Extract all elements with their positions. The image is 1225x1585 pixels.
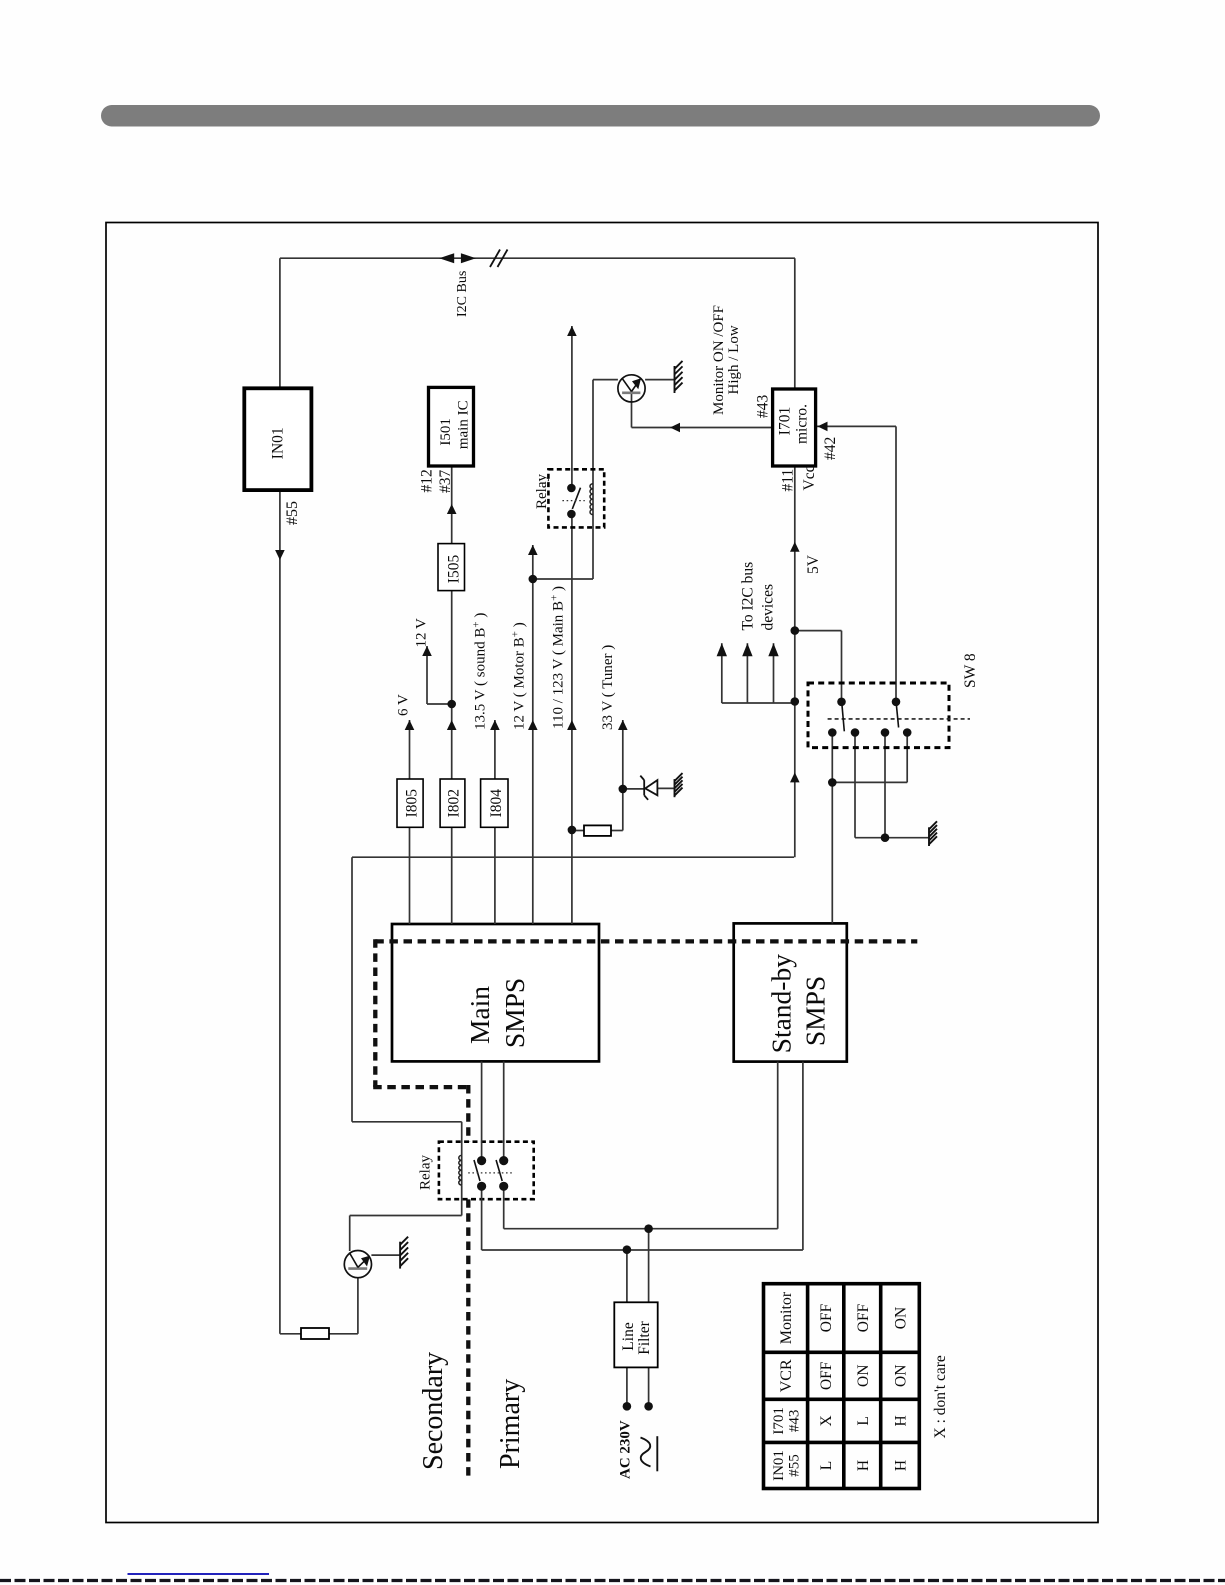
arrow: motor B+ out — [528, 720, 538, 730]
arrow: #43 direction — [670, 423, 680, 433]
svg-text:I501: I501 — [438, 418, 454, 446]
svg-text:#43: #43 — [787, 1410, 803, 1433]
svg-text:H: H — [893, 1415, 910, 1426]
wire: Q2 collector lead — [349, 1216, 351, 1252]
arrow: main B+ top — [528, 545, 538, 555]
svg-text:I804: I804 — [488, 789, 505, 818]
svg-text:#43: #43 — [755, 395, 772, 419]
wire: I802 to Main SMPS — [451, 827, 453, 924]
svg-text:OFF: OFF — [818, 1361, 835, 1390]
svg-text:I802: I802 — [446, 789, 463, 817]
wire: line filter leads — [626, 1250, 628, 1303]
ground (Q1 emitter) — [675, 361, 683, 393]
svg-text:micro.: micro. — [794, 404, 811, 444]
block IN01 — [244, 388, 311, 490]
arrow: 33V out — [618, 720, 628, 730]
svg-text:#37: #37 — [437, 470, 454, 494]
svg-text:Secondary: Secondary — [418, 1352, 449, 1470]
svg-text:Monitor ON /OFF: Monitor ON /OFF — [711, 305, 727, 415]
diagram frame — [106, 223, 1098, 1523]
wire: 33V dropper — [572, 830, 584, 832]
AC source symbol — [641, 1438, 651, 1467]
svg-text:SMPS: SMPS — [800, 976, 831, 1046]
svg-text:5V: 5V — [805, 554, 822, 574]
wire: 110/123V Main B+ line (below relay) — [571, 514, 573, 924]
wire: 5V Vcc line — [794, 466, 796, 857]
svg-text:SW 8: SW 8 — [962, 653, 979, 688]
node: AC neutral — [644, 1224, 653, 1233]
wire: Main SMPS to relay contacts — [481, 1061, 483, 1160]
wire: Main B+ line above relay — [571, 326, 573, 488]
svg-text:#12: #12 — [419, 469, 436, 492]
wire: 12V Motor B+ line — [532, 545, 534, 924]
zener diode D1 (33V clamp) — [640, 776, 657, 800]
wire: Q1 base lead — [631, 392, 633, 428]
wire: relay RL2 coil bottom — [461, 1185, 463, 1215]
node: 5V to I2C devices — [791, 697, 800, 706]
ground (zener) — [675, 773, 683, 797]
relay RL1 coil — [590, 484, 593, 515]
svg-text:#55: #55 — [787, 1454, 803, 1477]
SW8 pole 2 — [892, 698, 901, 707]
I2C bus double arrow — [439, 253, 454, 263]
wire: I805 to Main SMPS — [409, 827, 411, 924]
svg-text:Vcc: Vcc — [801, 465, 818, 490]
truth table — [764, 1284, 920, 1489]
wire: Q1 left lead — [593, 379, 618, 381]
wire: resistor to Q2 base — [329, 1333, 358, 1335]
relay RL2 contact a2 — [499, 1156, 508, 1165]
relay RL2 coil feed line — [461, 1155, 463, 1185]
wire: bus drop to IN01 — [279, 258, 281, 388]
wire: #42 from I701 to SW8 — [816, 425, 896, 427]
svg-text:IN01: IN01 — [270, 427, 287, 459]
wire: I804 to Main SMPS — [494, 827, 496, 924]
wire: IN01 #55 output down left side — [279, 490, 281, 1334]
regulator I802 — [440, 779, 465, 827]
svg-text:12 V ( Motor B+ ): 12 V ( Motor B+ ) — [510, 622, 528, 730]
relay RL2 blades — [474, 1160, 480, 1181]
node: B+ to dropper — [568, 826, 577, 835]
svg-text:VCR: VCR — [778, 1359, 795, 1392]
relay RL2 contact a1 — [477, 1156, 486, 1165]
SW8 contact 1a — [828, 728, 837, 737]
node: AC live — [623, 1245, 632, 1254]
wire: SW8 pole outputs — [831, 733, 833, 924]
arrow: to monitor — [567, 326, 577, 336]
ground (SW8) — [929, 821, 937, 846]
block Main SMPS — [392, 924, 599, 1061]
I2C bus width slashes — [490, 250, 500, 268]
svg-text:ON: ON — [855, 1365, 872, 1387]
header gray bar — [101, 105, 1100, 127]
svg-text:H: H — [893, 1460, 910, 1471]
svg-text:110 / 123 V ( Main B+ ): 110 / 123 V ( Main B+ ) — [549, 586, 567, 729]
SW8 pole 1 — [837, 698, 846, 707]
node: SW8 ground join — [881, 833, 890, 842]
node: SW8 output join — [828, 778, 837, 787]
svg-text:I701: I701 — [777, 407, 794, 435]
arrow: 13.5V out — [490, 720, 500, 730]
arrow: into I501 — [447, 504, 457, 514]
arrow: I2C dev 2 — [742, 643, 752, 656]
wire: I2C bus horizontal — [280, 257, 795, 259]
wire: relay RL2 coil top — [461, 1122, 463, 1156]
svg-text:#11: #11 — [780, 469, 797, 492]
svg-text:IN01: IN01 — [771, 1450, 787, 1481]
svg-text:ON: ON — [893, 1365, 910, 1387]
wire: 5V return to standby/relay coil — [352, 856, 794, 858]
node: 5V to SW8 — [791, 626, 800, 635]
svg-text:L: L — [855, 1416, 872, 1425]
svg-text:33 V ( Tuner ): 33 V ( Tuner ) — [600, 645, 616, 730]
svg-text:Stand-by: Stand-by — [766, 954, 797, 1054]
footer dashed separator — [0, 1579, 1225, 1582]
wire: 5V branch to SW8 — [795, 630, 842, 632]
transistor Q2 (mains relay driver) — [344, 1251, 371, 1278]
arrow: main B+ out — [567, 720, 577, 730]
svg-text:13.5 V ( sound B+ ): 13.5 V ( sound B+ ) — [471, 613, 489, 730]
arrow: 6V out — [405, 720, 415, 730]
block Stand-by SMPS — [734, 923, 847, 1061]
arrow: standby 5V up — [790, 772, 800, 782]
primary/secondary isolation boundary (thick dashed) — [373, 939, 917, 1476]
node: Main B+ tap — [529, 575, 538, 584]
relay RL2 contact b2 — [499, 1182, 508, 1191]
wire: I802 line up through I505 — [451, 591, 453, 779]
svg-text:ON: ON — [893, 1307, 910, 1329]
arrow: I802 out — [447, 720, 457, 730]
resistor R1 (33V dropper) — [584, 825, 611, 836]
svg-text:Line: Line — [620, 1322, 637, 1351]
terminal: AC in 2 — [644, 1402, 653, 1411]
svg-text:6 V: 6 V — [396, 694, 412, 716]
arrow: 5V into Vcc — [790, 542, 800, 552]
wire: #43 from I701 to Q1 — [632, 427, 773, 429]
svg-text:Relay: Relay — [534, 474, 550, 509]
svg-text:X : don't care: X : don't care — [932, 1355, 949, 1438]
relay RL1 lower contact — [567, 510, 576, 519]
relay RL1 upper contact — [567, 484, 576, 493]
svg-text:main IC: main IC — [456, 400, 472, 449]
wire: bus drop to I701 — [794, 258, 796, 389]
block I701 micro — [773, 389, 816, 466]
arrow: #42 into I701 — [818, 422, 828, 432]
svg-text:OFF: OFF — [818, 1303, 835, 1332]
wire: Q2 emitter to ground — [371, 1254, 400, 1256]
arrow: I2C dev 3 — [768, 643, 778, 656]
relay RL1 mechanical link (dotted) — [562, 500, 584, 502]
svg-text:H: H — [855, 1460, 872, 1471]
wire: relay contacts to AC node — [481, 1186, 483, 1250]
arrow: I2C dev 1 — [717, 643, 727, 656]
block I501 main IC — [429, 387, 474, 466]
wire: 13.5V sound B+ output — [494, 720, 496, 779]
SW8 mechanical link (dashed) — [828, 718, 970, 720]
svg-text:I701: I701 — [771, 1407, 787, 1435]
svg-text:SMPS: SMPS — [499, 978, 530, 1048]
wire: zener to ground — [623, 788, 644, 790]
arrow: 12V out — [422, 646, 432, 656]
svg-text:L: L — [818, 1461, 835, 1470]
svg-text:#55: #55 — [284, 501, 301, 525]
svg-text:devices: devices — [760, 584, 777, 630]
footer blue rule — [128, 1573, 270, 1575]
svg-text:I2C Bus: I2C Bus — [455, 271, 470, 317]
SW8 blade 2 — [896, 703, 898, 728]
node: zener/33V — [619, 785, 628, 794]
svg-text:12 V: 12 V — [414, 618, 430, 647]
svg-text:Monitor: Monitor — [778, 1291, 795, 1344]
node: 12V junction — [447, 700, 456, 709]
resistor R2 (Q2 base) — [301, 1328, 329, 1339]
wire: coil to Q2 collector — [350, 1215, 462, 1217]
wire: Q2 base lead — [357, 1277, 359, 1333]
switch SW8 dashed box — [808, 683, 949, 748]
relay RL2 contact b1 — [477, 1182, 486, 1191]
svg-text:I805: I805 — [404, 789, 421, 818]
wire: 12V branch — [427, 703, 452, 705]
transistor Q1 (monitor relay driver) — [618, 375, 645, 402]
wire: I505 to I501 (#12 #37) — [451, 467, 453, 543]
SW8 blade 1 — [842, 703, 845, 731]
svg-text:Primary: Primary — [495, 1379, 526, 1469]
relay RL2 coil — [459, 1155, 462, 1185]
wire: 6V output — [409, 720, 411, 779]
regulator I505 — [438, 544, 465, 591]
svg-text:Filter: Filter — [636, 1320, 653, 1354]
wire: to base resistor — [280, 1333, 301, 1335]
ground (Q2 emitter) — [400, 1237, 408, 1269]
SW8 contact 2b — [903, 728, 912, 737]
SW8 contact 1b — [851, 728, 860, 737]
relay RL1 dashed box — [548, 469, 604, 527]
svg-text:Relay: Relay — [418, 1155, 434, 1190]
svg-text:#42: #42 — [822, 437, 839, 460]
svg-text:To I2C bus: To I2C bus — [740, 562, 757, 631]
regulator I804 — [481, 779, 508, 827]
wire: to I2C bus devices manifold — [722, 702, 795, 704]
svg-text:AC 230V: AC 230V — [618, 1420, 634, 1479]
SW8 contact 2a — [881, 728, 890, 737]
wire: Q1 emitter to ground — [645, 379, 674, 381]
block Line Filter — [614, 1302, 657, 1367]
arrow: #55 signal down — [275, 550, 285, 560]
wire: relay coil feed from transistor Q1 — [592, 380, 594, 579]
svg-text:X: X — [818, 1415, 835, 1426]
svg-text:OFF: OFF — [855, 1303, 872, 1332]
svg-text:Main: Main — [464, 986, 495, 1044]
terminal: AC in 1 — [623, 1402, 632, 1411]
relay RL2 (mains) dashed box — [439, 1142, 534, 1200]
regulator I805 — [397, 779, 423, 827]
relay RL1 contact blade — [572, 488, 580, 509]
svg-text:High / Low: High / Low — [726, 325, 742, 394]
relay RL2 mechanical link (dotted) — [468, 1172, 512, 1174]
svg-text:I505: I505 — [446, 555, 463, 584]
